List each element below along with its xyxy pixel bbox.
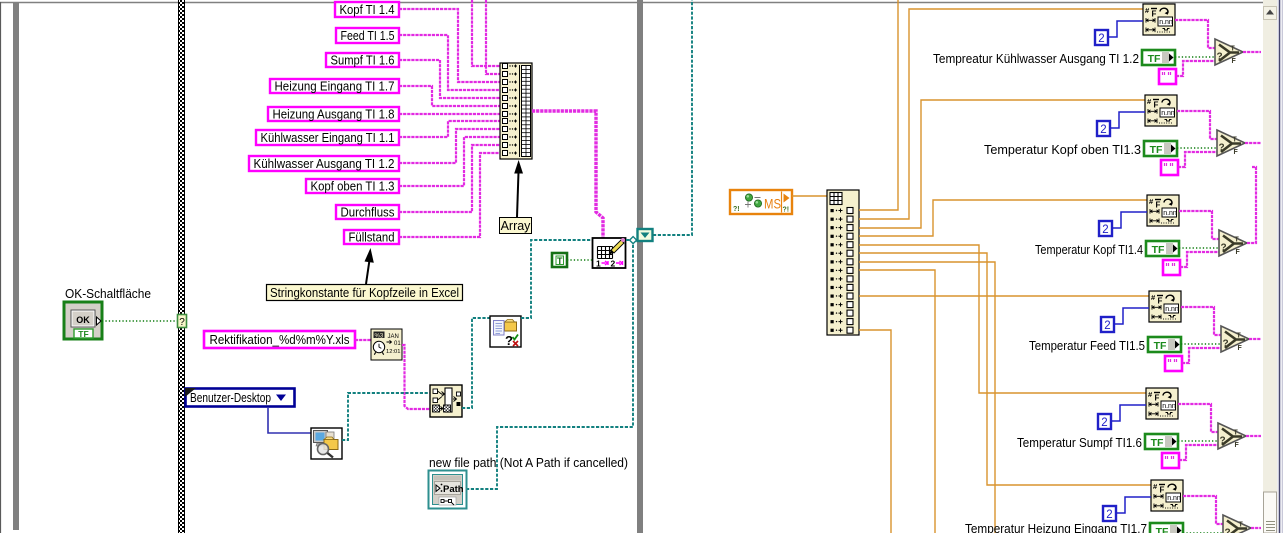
wire select output block 1 bbox=[1243, 51, 1261, 53]
number-to-string icon block 3 bbox=[1147, 195, 1179, 226]
wire bundle row 3 to block 2 bbox=[859, 100, 1145, 228]
wire numeric 2 constant block 1 bbox=[1108, 21, 1143, 37]
wire numeric 2 constant block 6 bbox=[1116, 497, 1151, 513]
label new file path (Not A Path if cancelled) bbox=[429, 455, 628, 470]
wire Durchfluss to array bbox=[399, 145, 500, 212]
wire Heizung Ausgang TI 1.8 to array bbox=[399, 113, 500, 115]
numeric constant 2 block 5 bbox=[1098, 414, 1111, 429]
wire OK button to structure tunnel bbox=[102, 320, 178, 322]
empty string constant block 4 bbox=[1165, 356, 1182, 371]
wire numeric 2 constant block 5 bbox=[1111, 405, 1146, 421]
number-to-string icon block 2 bbox=[1145, 95, 1177, 126]
svg-text:2: 2 bbox=[1098, 33, 1104, 45]
TF boolean terminal block 1 bbox=[1142, 50, 1175, 65]
svg-text:12:01: 12:01 bbox=[386, 349, 401, 355]
svg-text:Feed TI 1.5: Feed TI 1.5 bbox=[341, 28, 395, 43]
svg-text:?!: ?! bbox=[733, 206, 740, 213]
sequence structure checkered border bbox=[178, 0, 185, 533]
svg-text:F: F bbox=[1236, 249, 1241, 256]
svg-text:?: ? bbox=[1220, 436, 1226, 447]
svg-text:?: ? bbox=[1221, 243, 1227, 254]
string constant Durchfluss bbox=[336, 205, 399, 220]
wire numeric 2 constant block 2 bbox=[1110, 112, 1145, 128]
svg-text:F: F bbox=[1234, 149, 1239, 156]
TF boolean terminal block 6 bbox=[1150, 523, 1183, 533]
svg-text:Kühlwasser Eingang TI 1.1: Kühlwasser Eingang TI 1.1 bbox=[261, 130, 395, 145]
wire select output block 2 bbox=[1245, 142, 1261, 144]
string constant Füllstand bbox=[344, 230, 399, 245]
wire number-to-string output block 2 bbox=[1177, 111, 1217, 139]
label OK-Schaltflaeche bbox=[65, 286, 151, 301]
svg-text:n.nn: n.nn bbox=[1163, 210, 1177, 217]
wire array output to write-to-spreadsheet (1D string array) bbox=[532, 111, 603, 238]
TF boolean terminal block 2 bbox=[1144, 141, 1177, 156]
wire empty string to select block 3 bbox=[1180, 252, 1219, 267]
wire string from top edge to array row 2 bbox=[486, 0, 500, 74]
empty string constant block 2 bbox=[1161, 160, 1178, 175]
TF boolean terminal block 4 bbox=[1148, 337, 1181, 352]
wire select output block 3 bbox=[1247, 167, 1256, 243]
svg-text:T: T bbox=[1233, 137, 1238, 144]
svg-text:OK-Schaltfläche: OK-Schaltfläche bbox=[65, 286, 151, 301]
wire Kuhlwasser Eingang TI 1.1 to array bbox=[399, 121, 500, 137]
boolean tunnel with question mark bbox=[178, 315, 187, 329]
svg-text:T: T bbox=[1231, 46, 1236, 53]
svg-text:F: F bbox=[1158, 297, 1163, 306]
wire bundle row 1 to top edge bbox=[859, 0, 898, 210]
svg-text:n.nn: n.nn bbox=[1167, 495, 1181, 502]
svg-text:Tempreatur Kühlwasser Ausgang: Tempreatur Kühlwasser Ausgang TI 1.2 bbox=[933, 51, 1139, 66]
TF boolean terminal block 5 bbox=[1145, 434, 1178, 449]
svg-text:?: ? bbox=[1219, 143, 1225, 154]
label Stringkonstante fuer Kopfzeile in Excel bbox=[267, 285, 463, 301]
wire empty string to select block 5 bbox=[1179, 445, 1218, 460]
svg-text:Durchfluss: Durchfluss bbox=[341, 205, 395, 220]
wire bundle row 4 to block 3 bbox=[859, 200, 1147, 236]
svg-text:2: 2 bbox=[1106, 509, 1112, 521]
ring constant Benutzer-Desktop bbox=[185, 388, 295, 407]
build path icon bbox=[430, 385, 462, 417]
wire true constant to write-to-spreadsheet bbox=[567, 259, 592, 261]
svg-text:n.nn: n.nn bbox=[1161, 110, 1175, 117]
right window edge bbox=[1277, 0, 1283, 533]
svg-text:F: F bbox=[1238, 345, 1243, 352]
numeric constant 2 block 1 bbox=[1095, 30, 1108, 45]
empty string constant block 5 bbox=[1162, 453, 1179, 468]
svg-text:n.nn: n.nn bbox=[1162, 403, 1176, 410]
path indicator terminal bbox=[429, 471, 467, 509]
empty string constant block 1 bbox=[1159, 69, 1176, 84]
OK button boolean terminal bbox=[64, 302, 102, 339]
select node block 2 bbox=[1217, 130, 1245, 156]
wire TF to select node block 4 bbox=[1181, 343, 1220, 345]
svg-text:Heizung Ausgang TI 1.8: Heizung Ausgang TI 1.8 bbox=[273, 107, 395, 122]
svg-text:OK: OK bbox=[76, 315, 90, 325]
label Temperatur Kopf TI1.4 bbox=[1035, 242, 1143, 257]
svg-text:F: F bbox=[1156, 201, 1161, 210]
label Array bbox=[500, 218, 532, 234]
svg-text:MS: MS bbox=[764, 197, 781, 212]
string constant Kühlwasser Eingang TI 1.1 bbox=[256, 130, 399, 145]
string constant Kühlwasser Ausgang TI 1.2 bbox=[249, 156, 399, 171]
wire empty string to select block 4 bbox=[1182, 348, 1221, 363]
wire Feed TI 1.5 to array bbox=[399, 35, 500, 90]
svg-text:TF: TF bbox=[78, 329, 88, 339]
file dialog icon bbox=[490, 316, 521, 348]
svg-text:T: T bbox=[557, 256, 563, 266]
wire number-to-string output block 5 bbox=[1178, 404, 1218, 432]
wire select output block 5 bbox=[1246, 435, 1261, 437]
svg-text:?!: ?! bbox=[783, 207, 790, 214]
number-to-string icon block 5 bbox=[1146, 388, 1178, 419]
svg-text:Rektifikation_%d%m%Y.xls: Rektifikation_%d%m%Y.xls bbox=[210, 332, 350, 347]
numeric constant 2 block 4 bbox=[1101, 317, 1114, 332]
select node block 6 bbox=[1223, 515, 1251, 533]
svg-text:TF: TF bbox=[1150, 144, 1163, 156]
svg-text:?: ? bbox=[1225, 528, 1231, 533]
svg-text:Kühlwasser Ausgang TI 1.2: Kühlwasser Ausgang TI 1.2 bbox=[254, 156, 395, 171]
svg-text:F: F bbox=[1155, 394, 1160, 403]
svg-text:Kopf TI 1.4: Kopf TI 1.4 bbox=[340, 2, 395, 17]
wire empty string to select block 2 bbox=[1178, 152, 1217, 167]
svg-text:TF: TF bbox=[1148, 53, 1161, 65]
string constant Kopf oben TI 1.3 bbox=[306, 179, 399, 194]
wire TF to select node block 3 bbox=[1179, 247, 1218, 249]
string constant Heizung Eingang TI 1.7 bbox=[270, 79, 399, 94]
svg-text:Temperatur Sumpf TI1.6: Temperatur Sumpf TI1.6 bbox=[1017, 435, 1142, 450]
label Temperatur Heizung Eingang TI1.7 bbox=[965, 521, 1147, 533]
wire bundle row 8 to bottom edge bbox=[859, 270, 935, 533]
numeric constant 2 block 3 bbox=[1099, 221, 1112, 236]
svg-text:?: ? bbox=[1217, 52, 1223, 63]
wire TF to select node block 2 bbox=[1177, 147, 1216, 149]
wire bundle row 2 to block 1 bbox=[859, 9, 1143, 219]
svg-text:F: F bbox=[1232, 58, 1237, 65]
left gray structure bar bbox=[13, 3, 19, 530]
svg-text:2: 2 bbox=[611, 259, 616, 269]
string constant Rektifikation_%d%m%Y.xls bbox=[204, 331, 355, 348]
wire empty string to select block 1 bbox=[1176, 61, 1215, 76]
svg-text:Füllstand: Füllstand bbox=[349, 230, 395, 245]
svg-text:?: ? bbox=[179, 317, 185, 328]
wire MS node to bundle bbox=[792, 195, 827, 197]
wire file dialog to write-to-spreadsheet bbox=[521, 240, 592, 318]
svg-text:1: 1 bbox=[596, 259, 601, 269]
wire numeric 2 constant block 4 bbox=[1114, 308, 1149, 324]
wire Kopf oben TI 1.3 to array bbox=[399, 137, 500, 186]
svg-text:T: T bbox=[1237, 333, 1242, 340]
label Tempreatur Kühlwasser Ausgang TI 1.2 bbox=[933, 51, 1139, 66]
wire case selector to top edge bbox=[653, 0, 692, 235]
label Temperatur Kopf oben TI1.3 bbox=[984, 142, 1141, 157]
wire number-to-string output block 4 bbox=[1181, 307, 1221, 335]
svg-text:?: ? bbox=[505, 333, 513, 348]
format date/time string icon bbox=[371, 329, 402, 360]
boolean true constant T bbox=[552, 253, 567, 267]
svg-text:T: T bbox=[1239, 522, 1244, 529]
case selector tunnel bbox=[638, 229, 653, 241]
svg-text:Sumpf TI 1.6: Sumpf TI 1.6 bbox=[331, 53, 395, 68]
string constant Kopf TI 1.4 bbox=[335, 2, 399, 17]
svg-text:Temperatur Kopf TI1.4: Temperatur Kopf TI1.4 bbox=[1035, 242, 1143, 257]
arrow from Stringkonstante label to Fullstand bbox=[365, 248, 374, 284]
wire bundle row 6 to block 6 bbox=[859, 253, 1151, 485]
select node block 1 bbox=[1215, 39, 1243, 65]
wire TF to select node block 6 bbox=[1183, 532, 1222, 533]
svg-text:%3: %3 bbox=[375, 333, 384, 339]
svg-text:Kopf oben TI 1.3: Kopf oben TI 1.3 bbox=[311, 179, 395, 194]
MS shared variable node bbox=[730, 190, 792, 214]
svg-text:2: 2 bbox=[1102, 224, 1108, 236]
wire Kopf TI 1.4 to array bbox=[399, 9, 500, 82]
label Temperatur Feed TI1.5 bbox=[1029, 338, 1145, 353]
label Temperatur Sumpf TI1.6 bbox=[1017, 435, 1142, 450]
select node block 4 bbox=[1221, 326, 1249, 352]
svg-text:JAN: JAN bbox=[388, 334, 399, 340]
svg-text:Temperatur Feed TI1.5: Temperatur Feed TI1.5 bbox=[1029, 338, 1145, 353]
select node block 3 bbox=[1219, 230, 1247, 256]
get system directory icon (computer+folder+magnifier) bbox=[311, 428, 342, 459]
wire Heizung Eingang TI 1.7 to array bbox=[399, 86, 500, 106]
vertical scrollbar bbox=[1263, 0, 1277, 533]
number-to-string icon block 6 bbox=[1151, 480, 1183, 511]
wire Rektifikation to format date/time icon bbox=[355, 339, 371, 341]
wire junction to path indicator branch bbox=[466, 241, 633, 489]
svg-text:Benutzer-Desktop: Benutzer-Desktop bbox=[190, 390, 271, 405]
wire number-to-string output block 6 bbox=[1183, 496, 1223, 524]
gray case structure border bar bbox=[637, 0, 643, 533]
wire bundle row 7 to bottom edge bbox=[859, 262, 995, 533]
svg-text:TF: TF bbox=[1152, 244, 1165, 256]
svg-text:2: 2 bbox=[1104, 320, 1110, 332]
string constant Feed TI 1.5 bbox=[336, 28, 399, 43]
wire build path to file dialog bbox=[462, 318, 490, 408]
number-to-string icon block 4 bbox=[1149, 291, 1181, 322]
wire bundle row 11 to block 4 bbox=[859, 295, 1149, 297]
svg-text:Temperatur Heizung Eingang TI1: Temperatur Heizung Eingang TI1.7 bbox=[965, 521, 1147, 533]
empty string constant block 3 bbox=[1163, 260, 1180, 275]
TF boolean terminal block 3 bbox=[1146, 241, 1179, 256]
svg-text:F: F bbox=[1235, 442, 1240, 449]
wire number-to-string output block 1 bbox=[1175, 20, 1215, 48]
select node block 5 bbox=[1218, 423, 1246, 449]
svg-text:Temperatur Kopf oben TI1.3: Temperatur Kopf oben TI1.3 bbox=[984, 142, 1141, 157]
numeric constant 2 block 2 bbox=[1097, 121, 1110, 136]
svg-text:n.nn: n.nn bbox=[1159, 19, 1173, 26]
wire bundle row 15 to bottom edge bbox=[859, 330, 891, 533]
wire select output block 4 bbox=[1249, 338, 1261, 340]
svg-text:Heizung Eingang TI 1.7: Heizung Eingang TI 1.7 bbox=[275, 79, 395, 94]
svg-text:n.nn: n.nn bbox=[1165, 306, 1179, 313]
wire Benutzer-Desktop to system directory icon bbox=[268, 407, 311, 433]
wire numeric 2 constant block 3 bbox=[1112, 212, 1147, 228]
arrow from Array label to build array node bbox=[514, 160, 523, 217]
wire junction diamond bbox=[630, 237, 637, 244]
write to spreadsheet file icon bbox=[593, 238, 626, 269]
number-to-string icon block 1 bbox=[1143, 4, 1175, 35]
string constant Heizung Ausgang TI 1.8 bbox=[268, 107, 399, 122]
svg-text:F: F bbox=[1160, 486, 1165, 495]
svg-text:new file path (Not A Path if c: new file path (Not A Path if cancelled) bbox=[429, 455, 628, 470]
bundle cluster node bbox=[827, 190, 859, 335]
wire Fullstand to array bbox=[399, 153, 500, 237]
svg-text:TF: TF bbox=[1156, 526, 1169, 533]
string constant Sumpf TI 1.6 bbox=[326, 53, 399, 68]
svg-text:2: 2 bbox=[1100, 124, 1106, 136]
wire Kuhlwasser Ausgang TI 1.2 to array bbox=[399, 129, 500, 163]
svg-text:F: F bbox=[1154, 101, 1159, 110]
wire bundle row 5 to block 5 bbox=[859, 245, 1146, 393]
svg-text:01: 01 bbox=[394, 341, 401, 347]
svg-text:2: 2 bbox=[1101, 417, 1107, 429]
svg-text:T: T bbox=[1234, 430, 1239, 437]
wire system directory to build path bbox=[342, 393, 430, 440]
wire TF to select node block 1 bbox=[1175, 56, 1214, 58]
numeric constant 2 block 6 bbox=[1103, 506, 1116, 521]
wire number-to-string output block 3 bbox=[1179, 211, 1219, 239]
svg-text:Array: Array bbox=[501, 219, 532, 233]
left window border line bbox=[0, 2, 2, 533]
wire TF to select node block 5 bbox=[1178, 440, 1217, 442]
wire format date/time output to build path bbox=[402, 345, 430, 409]
wire Sumpf TI 1.6 to array bbox=[399, 60, 500, 98]
svg-text:TF: TF bbox=[1151, 437, 1164, 449]
svg-text:F: F bbox=[1152, 10, 1157, 19]
svg-text:Stringkonstante für Kopfzeile: Stringkonstante für Kopfzeile in Excel bbox=[270, 285, 459, 300]
svg-text:Path: Path bbox=[443, 484, 464, 495]
svg-text:TF: TF bbox=[1154, 340, 1167, 352]
top window border line bbox=[0, 2, 1277, 4]
wire select output block 6 bbox=[1251, 527, 1261, 529]
wire string from top edge to array row 1 bbox=[472, 0, 500, 66]
build array node bbox=[500, 63, 532, 159]
svg-text:T: T bbox=[1235, 237, 1240, 244]
svg-text:?: ? bbox=[1223, 339, 1229, 350]
wire write-to-spreadsheet to case structure bbox=[626, 239, 637, 241]
